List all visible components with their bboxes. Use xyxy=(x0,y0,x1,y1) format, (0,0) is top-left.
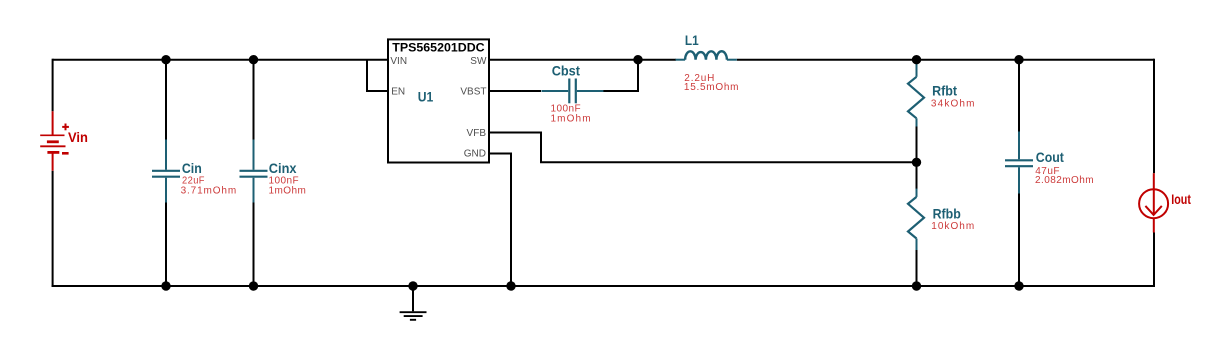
node Cout top xyxy=(1014,55,1023,64)
wire VFB feedback path xyxy=(489,133,917,163)
current source Iout xyxy=(1139,173,1168,232)
capacitor Cout xyxy=(1005,132,1033,194)
wire Rfbt bottom lead black xyxy=(916,126,918,162)
wire Rfbb bottom lead black xyxy=(916,250,918,286)
svg-text:L1: L1 xyxy=(685,32,699,48)
svg-text:1mOhm: 1mOhm xyxy=(269,186,307,197)
wire Rfbt top lead black xyxy=(916,60,918,67)
capacitor Cbst xyxy=(542,79,604,104)
inductor L1 xyxy=(676,51,737,59)
svg-text:34kOhm: 34kOhm xyxy=(931,99,975,110)
node Rfbb bottom xyxy=(912,281,921,290)
capacitor Cinx xyxy=(240,140,268,203)
svg-text:Cin: Cin xyxy=(182,160,202,176)
node feedback mid xyxy=(912,158,921,167)
wire SW rail (U1 to L1) xyxy=(489,59,676,61)
wire Cout vertical bottom xyxy=(1018,193,1020,286)
svg-text:Vin: Vin xyxy=(68,129,88,145)
svg-text:VFB: VFB xyxy=(467,128,487,139)
resistor Rfbb xyxy=(908,189,924,250)
wire Cbst right leg up to SW node xyxy=(593,60,638,91)
capacitor Cin xyxy=(152,140,180,203)
node GND drop bottom xyxy=(506,281,515,290)
svg-text:Rfbt: Rfbt xyxy=(932,83,957,99)
node SW/Cbst junction xyxy=(633,55,642,64)
wire bottom rail xyxy=(52,285,1155,287)
wire right rail bottom xyxy=(1153,233,1155,288)
wire right rail top (to Iout) xyxy=(1153,59,1155,174)
wire left rail top segment xyxy=(52,59,54,112)
wire Cinx vertical top xyxy=(253,60,255,141)
wire Cin vertical bottom xyxy=(165,202,167,286)
svg-text:Cbst: Cbst xyxy=(552,63,581,79)
node Cinx top xyxy=(249,55,258,64)
node ground junction xyxy=(408,281,417,290)
node Cin top xyxy=(161,55,170,64)
IC U1 TPS565201DDC box xyxy=(388,39,489,162)
wire L1 to top-right corner xyxy=(737,59,1154,61)
svg-text:2.082mOhm: 2.082mOhm xyxy=(1035,175,1094,186)
svg-text:1mOhm: 1mOhm xyxy=(551,114,592,125)
node Rfbt top xyxy=(912,55,921,64)
node Cin bottom xyxy=(161,281,170,290)
svg-text:10kOhm: 10kOhm xyxy=(931,221,975,232)
svg-text:VBST: VBST xyxy=(460,87,486,98)
svg-text:3.71mOhm: 3.71mOhm xyxy=(181,186,237,197)
node Cout bottom xyxy=(1014,281,1023,290)
wire VBST to Cbst left xyxy=(489,90,541,92)
svg-text:TPS565201DDC: TPS565201DDC xyxy=(392,41,484,55)
node Cinx bottom xyxy=(249,281,258,290)
wire Cinx vertical bottom xyxy=(253,202,255,286)
svg-text:Cinx: Cinx xyxy=(269,160,297,176)
svg-text:Rfbb: Rfbb xyxy=(933,205,961,221)
ground xyxy=(400,286,427,320)
wire Rfbb top lead black xyxy=(916,162,918,189)
svg-text:15.5mOhm: 15.5mOhm xyxy=(684,82,739,93)
wire GND drop xyxy=(489,154,511,287)
wire EN branch xyxy=(367,60,388,91)
resistor Rfbt xyxy=(908,63,924,127)
wire top rail left (Vin to U1 VIN pin) xyxy=(53,59,388,61)
svg-text:Iout: Iout xyxy=(1171,191,1191,207)
svg-text:EN: EN xyxy=(391,87,405,98)
svg-text:U1: U1 xyxy=(418,88,434,104)
svg-text:VIN: VIN xyxy=(390,56,407,67)
svg-text:GND: GND xyxy=(464,149,486,160)
wire Cin vertical top xyxy=(165,60,167,141)
battery Vin xyxy=(40,111,69,170)
wire Cout vertical top xyxy=(1018,60,1020,132)
wire left rail bottom segment xyxy=(52,171,54,287)
svg-text:Cout: Cout xyxy=(1036,149,1064,165)
svg-text:SW: SW xyxy=(470,56,487,67)
